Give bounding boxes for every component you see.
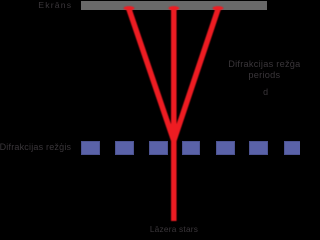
- node: left laser dot on screen: [124, 6, 135, 10]
- diffraction grating dash 3: [149, 141, 168, 155]
- diffraction grating dash 4: [182, 141, 201, 155]
- label Difrakcijas režģis: [0, 143, 71, 152]
- screen bar (Ekrāns): [81, 1, 267, 10]
- diffraction grating dash 7: [284, 141, 303, 155]
- label d: [246, 88, 286, 97]
- diffraction grating dash 2: [115, 141, 134, 155]
- label Ekrāns: [38, 2, 72, 9]
- wire: right diffracted beam: [174, 9, 218, 141]
- wire: central laser beam: [171, 9, 177, 221]
- node: right laser dot on screen: [213, 6, 224, 10]
- label Difrakcijas režģa periods: [214, 59, 314, 83]
- wire: left diffracted beam: [129, 9, 174, 141]
- diffraction grating dash 5: [216, 141, 235, 155]
- label Lāzera stars: [124, 225, 224, 233]
- node: central laser dot on screen: [168, 6, 179, 10]
- diffraction grating dash 6: [249, 141, 268, 155]
- diffraction grating dash 1: [81, 141, 100, 155]
